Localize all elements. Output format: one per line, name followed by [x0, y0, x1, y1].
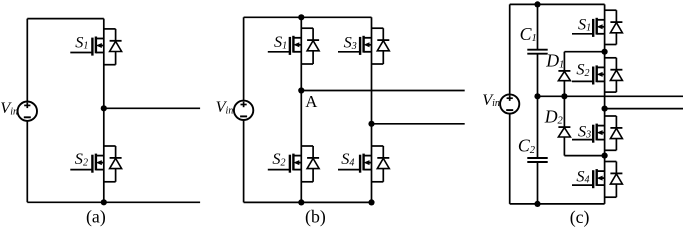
antiparallel diode of S2 (c) [605, 57, 617, 59]
neutral output wire (c) [538, 95, 684, 97]
node clamp diode midpoint junction dot (c) [561, 93, 567, 99]
node bottom (a) junction dot [101, 199, 107, 205]
node bottom rail capacitor tap junction dot (c) [534, 201, 540, 207]
node bottom right leg junction dot (b) [368, 199, 374, 205]
capacitor C2 plates [527, 157, 547, 159]
clamp diode D1 [558, 70, 570, 72]
phase output wire (c) [605, 108, 683, 110]
antiparallel diode of S4 (c) [605, 161, 617, 163]
transistor S3 (c) MOSFET symbol [572, 139, 593, 141]
antiparallel diode of S3 (c) [605, 115, 617, 117]
voltage source Vin (a) circle [18, 102, 37, 121]
transistor S1 (a) MOSFET symbol [70, 52, 92, 54]
plus sign of Vin (c) [507, 97, 513, 99]
plus sign of Vin (a) [24, 104, 30, 106]
circuit (a) half-bridge : top rail wire [27, 18, 104, 20]
node output (a) junction dot [101, 105, 107, 111]
node capacitor midpoint junction dot (c) [534, 93, 540, 99]
voltage source Vin (b) circle [234, 101, 253, 120]
circuit (b) left wire upper segment [243, 17, 245, 101]
transistor S2 (b) MOSFET symbol [268, 169, 290, 171]
antiparallel diode of S2 (a) [104, 145, 116, 147]
capacitor C1 plates [527, 49, 547, 51]
clamp diode D2 [558, 126, 570, 128]
transistor S2 (a) MOSFET symbol [70, 169, 92, 171]
circuit (c) bottom rail wire [510, 203, 605, 205]
circuit (a) bottom rail wire [27, 201, 200, 203]
transistor S3 (b) MOSFET symbol [338, 51, 360, 53]
svg-text:A: A [305, 92, 317, 111]
circuit (b) output wire from right leg [372, 123, 465, 125]
circuit (b) full-bridge : top rail wire [244, 16, 372, 18]
circuit (b) right leg wire [371, 17, 373, 202]
transistor S4 (b) MOSFET symbol [338, 169, 360, 171]
transistor S1 (c) MOSFET symbol [572, 33, 593, 35]
node right leg midpoint junction dot (b) [368, 121, 374, 127]
node bottom left leg junction dot (b) [298, 199, 304, 205]
circuit (c) left wire upper segment [509, 4, 511, 94]
circuit (b) bottom rail wire [244, 201, 372, 203]
antiparallel diode of S4 (b) [372, 145, 384, 147]
clamp branch top stub wire (c) [564, 51, 604, 53]
svg-text:(b): (b) [305, 207, 326, 227]
transistor S2 (c) MOSFET symbol [572, 80, 593, 82]
minus sign of Vin (c) [506, 109, 513, 111]
circuit (c) left wire lower segment [509, 113, 511, 204]
antiparallel diode of S1 (a) [104, 28, 116, 30]
circuit (a) output wire [104, 107, 200, 109]
transistor S1 (b) MOSFET symbol [268, 51, 290, 53]
antiparallel diode of S3 (b) [372, 27, 384, 29]
circuit (c) NPC leg : top rail wire [510, 3, 605, 5]
plus sign of Vin (b) [241, 104, 247, 106]
svg-text:(c): (c) [570, 207, 590, 227]
antiparallel diode of S1 (c) [605, 9, 617, 11]
circuit (b) left wire lower segment [243, 120, 245, 203]
circuit (a) switch leg wire [103, 19, 105, 203]
clamp branch bottom stub wire (c) [564, 155, 604, 157]
transistor S4 (c) MOSFET symbol [572, 184, 593, 186]
circuit (b) left leg wire [300, 17, 302, 202]
voltage source Vin (c) circle [500, 94, 519, 113]
clamp diode D1 branch wire [563, 52, 565, 97]
circuit (c) switch leg wire [604, 4, 606, 204]
capacitor branch wire upper (c) [537, 4, 539, 49]
node output junction dot (c) [602, 106, 608, 112]
minus sign of Vin (b) [240, 115, 247, 117]
circuit (b) output wire from node A [301, 90, 464, 92]
clamp diode D2 branch wire [563, 96, 565, 155]
antiparallel diode of S1 (b) [301, 27, 313, 29]
node top rail left leg junction dot (b) [298, 14, 304, 20]
svg-text:(a): (a) [86, 207, 106, 227]
node S1-S2 junction dot (c) [602, 49, 608, 55]
node S3-S4 junction dot (c) [602, 153, 608, 159]
capacitor branch wire lower (c) [537, 162, 539, 204]
circuit (a) left wire lower segment [26, 121, 28, 203]
capacitor branch wire middle (c) [537, 54, 539, 158]
node A junction dot (b) [298, 87, 304, 93]
minus sign of Vin (a) [24, 116, 31, 118]
antiparallel diode of S2 (b) [301, 145, 313, 147]
circuit (a) left wire upper segment [26, 19, 28, 102]
node top rail capacitor tap junction dot (c) [534, 1, 540, 7]
